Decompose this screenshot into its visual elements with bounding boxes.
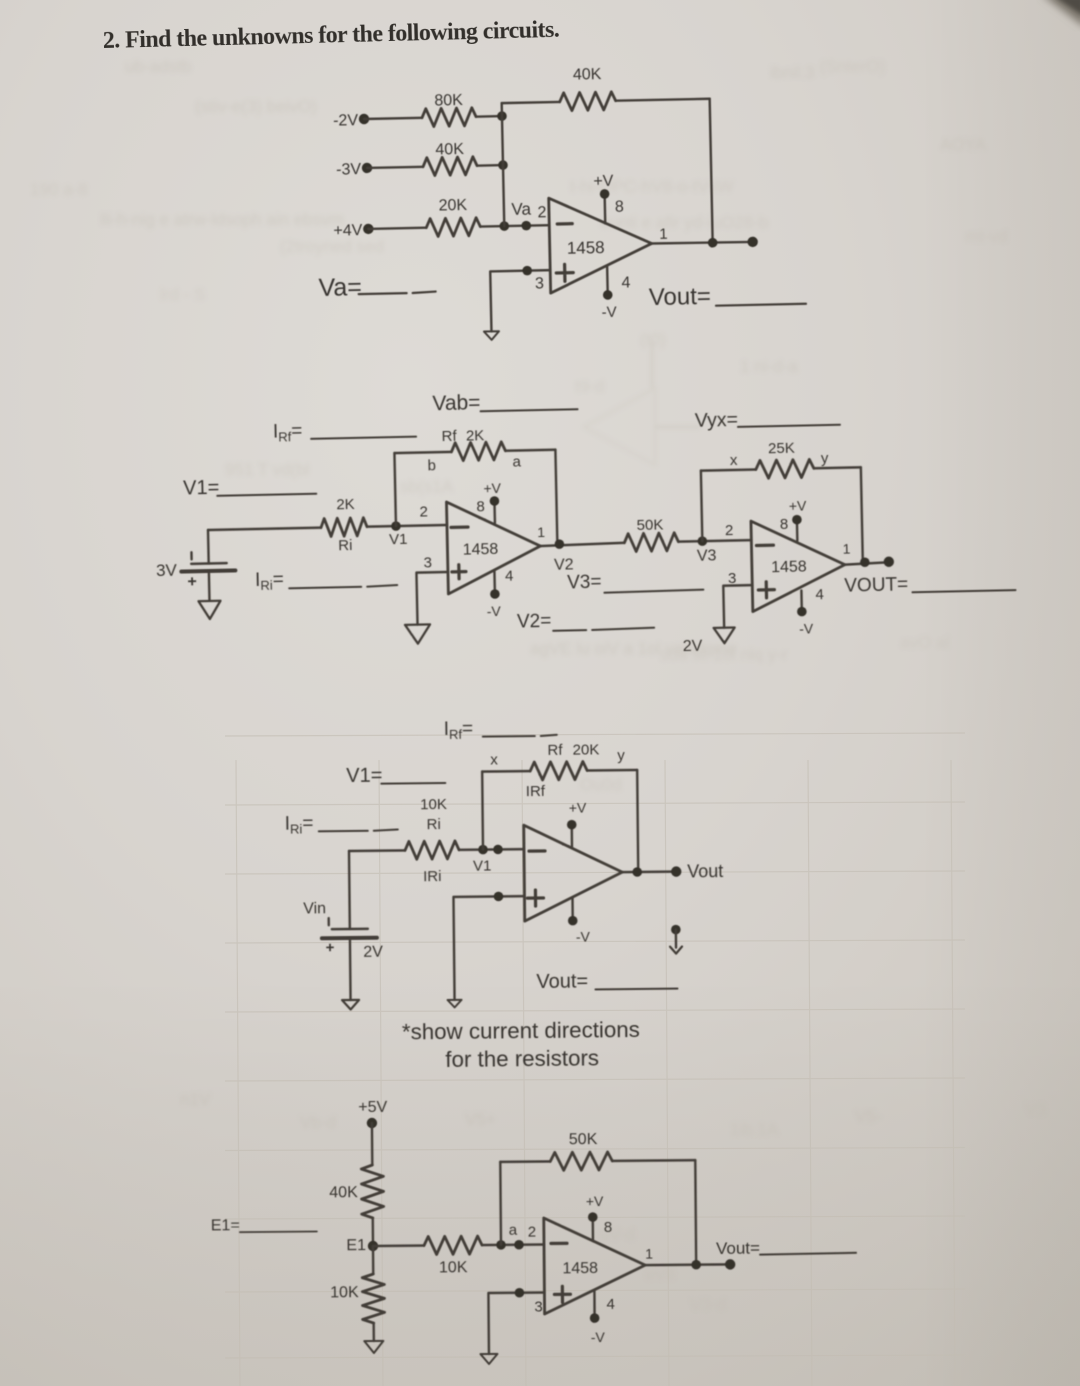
svg-text:(stiv-e(3) beivO): (stiv-e(3) beivO) bbox=[195, 97, 317, 116]
wire E1 to 10K input bbox=[373, 1244, 424, 1247]
svg-text:V1=: V1= bbox=[346, 765, 382, 787]
svg-text:x: x bbox=[730, 452, 738, 469]
output wire stage1 bbox=[540, 543, 624, 546]
ground pin3 A bbox=[405, 624, 430, 644]
svg-text:(2troyned sed: (2troyned sed bbox=[280, 237, 384, 256]
svg-text:8: 8 bbox=[476, 498, 485, 515]
svg-text:E1: E1 bbox=[346, 1237, 366, 1254]
+5V terminal dot bbox=[367, 1118, 377, 1128]
blank line for Vout bbox=[716, 304, 806, 306]
svg-text:50K: 50K bbox=[569, 1131, 598, 1148]
wire E1 to 10K lower bbox=[372, 1246, 375, 1274]
wire battery to ground bbox=[349, 938, 352, 1000]
feedback right vertical bbox=[555, 450, 557, 544]
svg-text:1458: 1458 bbox=[463, 541, 499, 559]
svg-text:Ri: Ri bbox=[338, 537, 353, 554]
svg-text:3: 3 bbox=[534, 1299, 542, 1316]
pin 3 wire bbox=[453, 896, 525, 1000]
svg-text:t9-d: t9-d bbox=[575, 377, 604, 396]
junction dot output/feedback bbox=[632, 867, 642, 877]
output wire bbox=[652, 241, 753, 244]
junction dot node a bbox=[496, 1240, 506, 1250]
junction dot row1/bus bbox=[497, 111, 507, 121]
svg-text:Vyx=: Vyx= bbox=[695, 409, 739, 432]
feedback top wire right bbox=[616, 99, 710, 101]
svg-text:1 ni-d-a: 1 ni-d-a bbox=[740, 357, 798, 376]
svg-text:E1=: E1= bbox=[211, 1217, 240, 1234]
pin 8 dot bbox=[567, 820, 577, 830]
svg-text:40K: 40K bbox=[435, 141, 464, 159]
svg-text:2V: 2V bbox=[683, 638, 703, 655]
svg-text:V1: V1 bbox=[473, 858, 492, 875]
svg-text:Ri: Ri bbox=[427, 816, 441, 833]
svg-text:lli-h-nig e atrw-ldsoph ain eb: lli-h-nig e atrw-ldsoph ain ebsvm bbox=[100, 210, 344, 229]
resistor Rf 20K bbox=[530, 762, 587, 781]
svg-text:80K: 80K bbox=[434, 92, 463, 110]
svg-text:2K: 2K bbox=[466, 427, 485, 444]
svg-text:lrd - S: lrd - S bbox=[160, 285, 205, 304]
battery 3V top plate bbox=[191, 562, 226, 565]
feedback top left bbox=[500, 1160, 550, 1163]
output2 terminal dot bbox=[884, 556, 895, 567]
svg-text:10K: 10K bbox=[330, 1284, 359, 1301]
op-amp U1 1458 bbox=[549, 196, 653, 293]
wire Ri to op-amp bbox=[459, 848, 524, 851]
svg-text:x: x bbox=[490, 751, 498, 768]
battery current tick I bbox=[328, 918, 330, 925]
feedback vertical bbox=[481, 772, 484, 850]
svg-text:+V: +V bbox=[586, 1193, 604, 1209]
output wire bbox=[622, 870, 676, 873]
wire -3V to R 40K bbox=[367, 167, 423, 168]
svg-text:a: a bbox=[509, 1222, 518, 1239]
svg-text:IRf: IRf bbox=[526, 783, 546, 800]
svg-text:4: 4 bbox=[815, 586, 824, 603]
svg-text:V1: V1 bbox=[389, 531, 408, 548]
svg-text:2V: 2V bbox=[363, 944, 383, 961]
svg-text:-V: -V bbox=[601, 304, 616, 321]
junction dot pin2 stub bbox=[521, 221, 531, 231]
svg-text:20K: 20K bbox=[438, 197, 467, 215]
svg-text:1: 1 bbox=[537, 524, 545, 540]
svg-text:2K: 2K bbox=[336, 496, 355, 513]
ground pin3 bbox=[480, 1354, 497, 1364]
wire R 20K to op-amp inverting input bbox=[480, 225, 549, 226]
resistor 40K feedback bbox=[559, 92, 615, 111]
feedback top wire left bbox=[394, 452, 451, 453]
feedback vertical from V1 bbox=[394, 453, 396, 526]
pin 3 wire B bbox=[723, 585, 753, 628]
svg-text:4: 4 bbox=[606, 1296, 614, 1313]
junction dot pin3 bbox=[522, 266, 532, 276]
ghost mirrored op-amp bbox=[584, 388, 655, 465]
pin 8 lead bbox=[571, 825, 574, 848]
source +4V terminal dot bbox=[363, 224, 374, 235]
pin 4 lead bbox=[493, 571, 496, 594]
svg-text:sda sil 1ol nlq y-r: sda sil 1ol nlq y-r bbox=[660, 645, 788, 664]
svg-text:Vout=: Vout= bbox=[536, 971, 588, 994]
wire 40K to E1 bbox=[372, 1218, 375, 1246]
blank line for Vout bbox=[595, 988, 677, 991]
output wire bbox=[645, 1263, 730, 1266]
pin 4 lead bbox=[593, 1290, 596, 1318]
svg-text:+5V: +5V bbox=[358, 1099, 387, 1116]
blank line for Vab bbox=[481, 409, 578, 411]
ground divider bbox=[364, 1341, 383, 1353]
svg-text:eunti e afir yd-iuO28-b: eunti e afir yd-iuO28-b bbox=[600, 213, 768, 232]
blank line for Vout bbox=[760, 1253, 856, 1255]
svg-text:*show current directions: *show current directions bbox=[402, 1017, 640, 1044]
svg-text:VOUT=: VOUT= bbox=[844, 574, 908, 596]
svg-text:Vout: Vout bbox=[687, 861, 723, 881]
pin 4 lead bbox=[571, 898, 574, 921]
feedback2 vertical bbox=[701, 471, 702, 541]
wire Ri to op-amp bbox=[367, 525, 447, 527]
svg-text:Ou0d: Ou0d bbox=[580, 775, 622, 794]
pin 3 wire bbox=[488, 1293, 545, 1354]
junction dot node Va bus bbox=[499, 221, 509, 231]
junction dot pin2 stub bbox=[514, 1240, 524, 1250]
blank line for V2 bbox=[553, 628, 654, 631]
pin 4 supply lead bbox=[606, 265, 609, 294]
svg-text:V3-d: V3-d bbox=[690, 1295, 726, 1314]
plus sign bbox=[452, 565, 466, 579]
feedback top right bbox=[612, 1159, 695, 1162]
minus sign bbox=[529, 849, 545, 852]
inverting input minus sign bbox=[557, 222, 572, 226]
blank line for V1 bbox=[217, 494, 316, 496]
svg-text:4: 4 bbox=[621, 274, 630, 291]
pin 3 wire bbox=[490, 270, 551, 331]
svg-text:V2=: V2= bbox=[517, 611, 552, 633]
pin 4 dot bbox=[568, 916, 578, 926]
pin 8 supply lead bbox=[603, 194, 606, 223]
pin 4 dot bbox=[590, 1313, 600, 1323]
svg-text:1: 1 bbox=[659, 226, 668, 243]
junction dot node V1 bbox=[391, 521, 401, 531]
svg-text:-V: -V bbox=[591, 1329, 606, 1345]
wire R 80K to node bus bbox=[476, 115, 502, 118]
wire input row left bbox=[208, 528, 321, 530]
svg-text:+4V: +4V bbox=[333, 222, 363, 240]
svg-text:AOYA: AOYA bbox=[940, 135, 987, 154]
svg-text:4: 4 bbox=[505, 568, 514, 585]
svg-text:190 a-8: 190 a-8 bbox=[30, 180, 88, 199]
blank line for IRf bbox=[311, 437, 416, 439]
feedback2 top left bbox=[701, 470, 756, 471]
wire battery to ground bbox=[208, 571, 211, 600]
wire 50K to op-amp B bbox=[678, 540, 751, 542]
resistor 80K bbox=[422, 108, 476, 127]
svg-text:Vab=: Vab= bbox=[432, 391, 481, 415]
svg-text:for the resistors: for the resistors bbox=[445, 1045, 599, 1072]
svg-text:1458: 1458 bbox=[567, 238, 605, 258]
junction dot output/feedback bbox=[708, 238, 718, 248]
ground pin3 B bbox=[714, 627, 735, 643]
svg-text:mt-vd: mt-vd bbox=[965, 227, 1008, 246]
feedback top wire right bbox=[505, 450, 555, 451]
junction dot node V2 bbox=[554, 539, 564, 549]
svg-text:+V: +V bbox=[569, 800, 587, 816]
svg-text:+V: +V bbox=[789, 497, 808, 513]
svg-text:V1=: V1= bbox=[183, 477, 220, 500]
svg-text:3: 3 bbox=[423, 554, 432, 571]
junction dot node V3 bbox=[697, 536, 707, 546]
resistor Rf 2K bbox=[451, 442, 505, 461]
svg-text:ub-adstb: ub-adstb bbox=[125, 57, 191, 76]
plus sign bbox=[554, 1286, 570, 1302]
feedback right vertical wire bbox=[710, 99, 713, 244]
dark table corner top-right bbox=[1041, 0, 1080, 28]
battery 3V bottom plate bbox=[181, 570, 235, 571]
ground pin3 bbox=[484, 331, 499, 340]
svg-text:Vb-d: Vb-d bbox=[300, 1113, 336, 1132]
blank line for IRi bbox=[289, 585, 397, 588]
blank line for IRi bbox=[319, 829, 398, 831]
svg-text:Rf: Rf bbox=[441, 428, 457, 445]
blank line for Va bbox=[359, 292, 436, 295]
svg-text:y: y bbox=[821, 450, 829, 467]
pin 3 wire A bbox=[416, 572, 449, 625]
pin 8 lead B bbox=[796, 520, 799, 541]
wire 10K to ground bbox=[372, 1323, 375, 1341]
ground battery bbox=[342, 1000, 359, 1010]
svg-text:oV8: oV8 bbox=[645, 1265, 675, 1284]
svg-text:1458: 1458 bbox=[562, 1260, 598, 1277]
resistor 10K input bbox=[424, 1236, 482, 1255]
svg-text:Va: Va bbox=[511, 200, 531, 219]
svg-text:IRi: IRi bbox=[423, 868, 442, 885]
resistor 20K bbox=[426, 218, 480, 237]
svg-text:20K: 20K bbox=[573, 741, 600, 758]
junction dot output2 bbox=[860, 557, 870, 567]
resistor 50K bbox=[624, 533, 678, 552]
source -2V terminal dot bbox=[359, 114, 370, 125]
output current arrow stem bbox=[675, 930, 678, 948]
battery Vin bottom plate bbox=[322, 936, 377, 941]
blank line for V3 bbox=[604, 590, 703, 593]
ground pin3 bbox=[448, 1000, 462, 1008]
battery Vin top plate bbox=[332, 928, 368, 931]
output terminal dot bbox=[725, 1259, 735, 1269]
blank line for IRf bbox=[483, 735, 557, 737]
svg-text:V3=: V3= bbox=[567, 572, 602, 594]
wire battery top bbox=[348, 851, 351, 929]
svg-text:10K: 10K bbox=[420, 796, 447, 813]
svg-text:+V: +V bbox=[593, 173, 614, 190]
svg-text:-V: -V bbox=[487, 603, 502, 619]
svg-text:+: + bbox=[326, 939, 335, 956]
wire +5V to 40K bbox=[371, 1123, 374, 1165]
pin 4 lead B bbox=[800, 591, 803, 612]
feedback right vertical bbox=[637, 770, 638, 872]
svg-text:40K: 40K bbox=[573, 66, 602, 84]
feedback vertical bbox=[499, 1162, 502, 1245]
svg-text:3V: 3V bbox=[156, 561, 178, 580]
minus sign bbox=[551, 1242, 567, 1245]
resistor 25K bbox=[756, 459, 814, 478]
svg-text:Rf: Rf bbox=[547, 742, 563, 759]
junction dot V1 feedback bbox=[478, 845, 488, 855]
svg-text:a: a bbox=[512, 453, 521, 470]
blank line for Vyx bbox=[738, 425, 840, 427]
feedback top wire left bbox=[502, 102, 560, 103]
feedback top left bbox=[482, 770, 530, 773]
resistor Ri 10K bbox=[405, 841, 459, 860]
resistor 50K bbox=[550, 1152, 612, 1171]
wire battery to input row bbox=[207, 530, 210, 563]
junction dot output/feedback bbox=[691, 1260, 701, 1270]
svg-text:b: b bbox=[427, 457, 436, 474]
source -3V terminal dot bbox=[362, 163, 373, 174]
wire +4V to R 20K bbox=[368, 228, 426, 229]
svg-text:V5-: V5- bbox=[855, 1107, 881, 1126]
svg-text:Vin: Vin bbox=[303, 900, 326, 917]
svg-text:2: 2 bbox=[528, 1224, 536, 1241]
minus sign bbox=[451, 525, 468, 529]
junction dot row2/bus bbox=[498, 160, 508, 170]
svg-text:8: 8 bbox=[780, 516, 789, 533]
junction dot pin3 bbox=[515, 1288, 525, 1298]
svg-text:2: 2 bbox=[537, 204, 546, 221]
svg-text:50K: 50K bbox=[636, 516, 663, 534]
blank line for VOUT bbox=[912, 590, 1015, 592]
svg-text:40K: 40K bbox=[329, 1184, 358, 1201]
svg-text:Va=: Va= bbox=[318, 273, 362, 302]
svg-text:-3V: -3V bbox=[336, 161, 362, 179]
resistor 10K vertical bbox=[362, 1274, 384, 1323]
svg-text:10K: 10K bbox=[439, 1259, 468, 1276]
op-amp A2 1458 bbox=[446, 500, 541, 594]
output terminal dot bbox=[671, 866, 682, 877]
svg-text:ibnil.3: ibnil.3 bbox=[770, 63, 814, 82]
svg-text:3: 3 bbox=[535, 275, 544, 292]
svg-text:V2: V2 bbox=[554, 556, 574, 573]
svg-text:avO al: avO al bbox=[900, 633, 949, 652]
pin 4 -V dot bbox=[603, 290, 613, 300]
svg-text:n1V: n1V bbox=[180, 1090, 211, 1109]
svg-text:+: + bbox=[187, 573, 197, 590]
pin 4 dot bbox=[490, 589, 500, 599]
junction dot pin2 stub bbox=[493, 845, 503, 855]
svg-text:-V: -V bbox=[799, 620, 814, 636]
svg-text:951 T vd(bl: 951 T vd(bl bbox=[225, 460, 309, 479]
output wire stage2 bbox=[845, 562, 889, 564]
op-amp A3 bbox=[524, 824, 623, 921]
ground battery bbox=[198, 601, 220, 619]
feedback top right bbox=[587, 769, 637, 772]
svg-text:+V: +V bbox=[483, 480, 502, 496]
junction dot pin3 bbox=[494, 892, 504, 902]
pin 8 dot bbox=[588, 1212, 598, 1222]
minus sign B bbox=[756, 544, 773, 548]
pin 8 dot bbox=[490, 496, 500, 506]
svg-text:8: 8 bbox=[604, 1219, 612, 1236]
wire -2V to R 80K bbox=[364, 118, 422, 119]
svg-text:Vout=: Vout= bbox=[716, 1239, 760, 1258]
feedback2 right vertical bbox=[861, 467, 863, 562]
svg-text:y: y bbox=[617, 747, 625, 764]
svg-text:V3: V3 bbox=[697, 547, 717, 564]
svg-text:sb(s1A: sb(s1A bbox=[400, 477, 454, 496]
junction dot node E1 bbox=[368, 1241, 378, 1251]
resistor Ri 2K bbox=[321, 518, 367, 537]
wire battery to Ri bbox=[349, 849, 405, 852]
svg-text:(SnterO): (SnterO) bbox=[820, 57, 885, 76]
svg-text:-V: -V bbox=[576, 928, 591, 944]
svg-text:1: 1 bbox=[842, 541, 850, 557]
pin 8 lead bbox=[493, 501, 496, 523]
plus sign B bbox=[758, 582, 774, 598]
feedback right vertical bbox=[694, 1160, 697, 1264]
svg-text:1: 1 bbox=[645, 1246, 653, 1262]
node bus vertical wire bbox=[502, 103, 505, 226]
wire R 40K to bus bbox=[477, 164, 503, 167]
pin 8 lead bbox=[592, 1217, 595, 1241]
resistor 40K vertical bbox=[361, 1165, 383, 1218]
svg-text:V5+: V5+ bbox=[465, 1110, 496, 1129]
pin 8 +V dot bbox=[600, 189, 610, 199]
output current arrow dot bbox=[671, 925, 681, 935]
output terminal dot bbox=[747, 237, 758, 248]
svg-text:-2V: -2V bbox=[333, 112, 359, 130]
plus sign bbox=[527, 890, 543, 906]
resistor 40K input bbox=[423, 157, 477, 176]
svg-text:Vout=: Vout= bbox=[649, 283, 712, 311]
svg-text:2: 2 bbox=[419, 503, 428, 520]
battery current tick I bbox=[190, 552, 193, 559]
svg-text:2: 2 bbox=[725, 522, 734, 539]
pin 8 dot B bbox=[792, 515, 802, 525]
svg-text:1458: 1458 bbox=[771, 558, 807, 576]
feedback2 top right bbox=[814, 466, 861, 469]
blank line for E1 bbox=[240, 1230, 317, 1233]
svg-text:25K: 25K bbox=[768, 440, 795, 458]
svg-text:V3: V3 bbox=[1025, 1100, 1046, 1119]
wire 10K to op-amp bbox=[482, 1243, 544, 1246]
svg-text:8: 8 bbox=[615, 199, 624, 216]
svg-text:1ib.1A: 1ib.1A bbox=[730, 1120, 779, 1139]
non-inverting plus sign bbox=[556, 264, 573, 281]
output current arrowhead bbox=[670, 947, 682, 954]
op-amp B2 1458 bbox=[751, 519, 846, 611]
pin 4 dot B bbox=[797, 607, 807, 617]
blank line for V1 bbox=[381, 782, 445, 785]
op-amp A4 1458 bbox=[544, 1217, 646, 1314]
